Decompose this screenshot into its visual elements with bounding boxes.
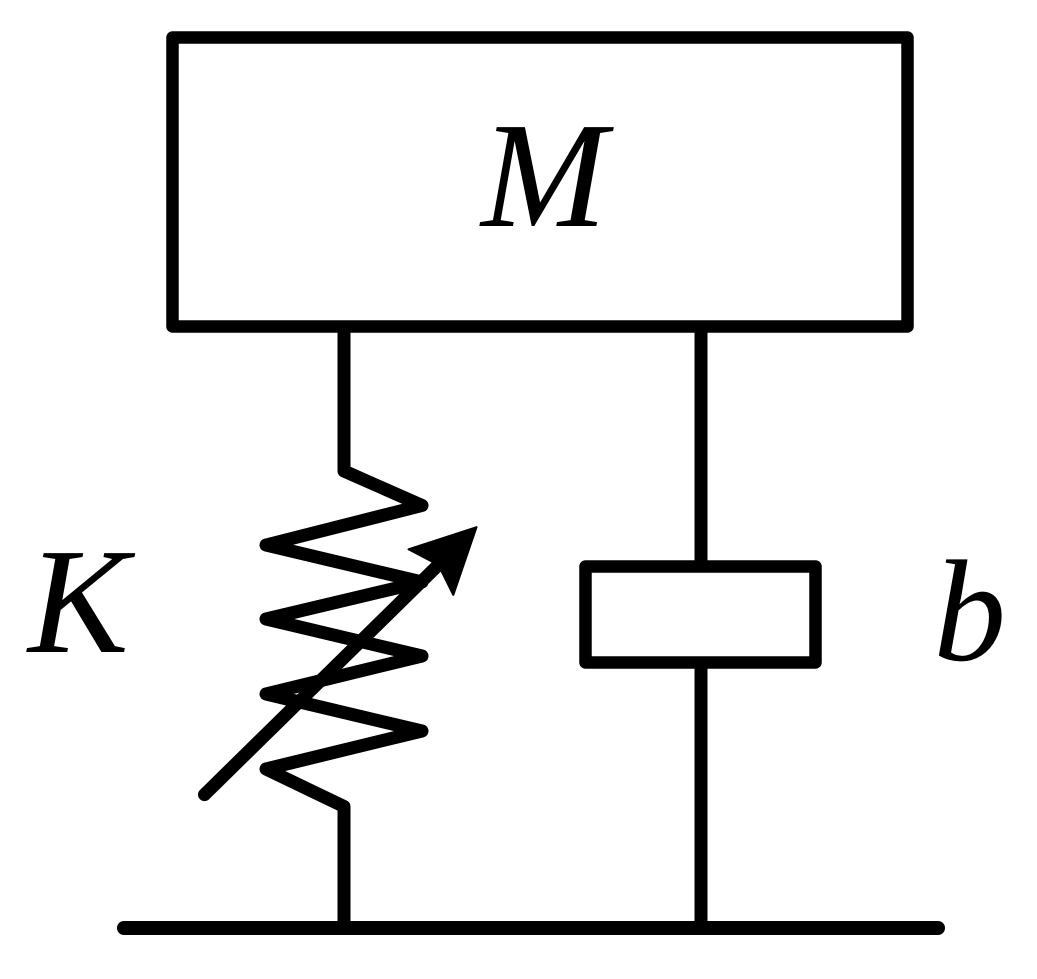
svg-text:M: M bbox=[479, 91, 614, 259]
variable-spring arrow shaft bbox=[205, 554, 451, 795]
wire from spring bottom to ground bbox=[338, 806, 351, 928]
wire from mass to spring top bbox=[338, 327, 351, 471]
variable-spring arrow head bbox=[409, 527, 477, 595]
spring K (zigzag) bbox=[266, 466, 422, 812]
wire from mass to damper top bbox=[695, 327, 708, 562]
wire from damper to ground bbox=[695, 663, 708, 928]
ground line bbox=[124, 921, 938, 935]
svg-text:K: K bbox=[26, 517, 136, 685]
damper b (rectangle) bbox=[586, 567, 816, 663]
svg-text:b: b bbox=[934, 532, 1007, 692]
mass block M (rectangle) bbox=[173, 38, 908, 327]
